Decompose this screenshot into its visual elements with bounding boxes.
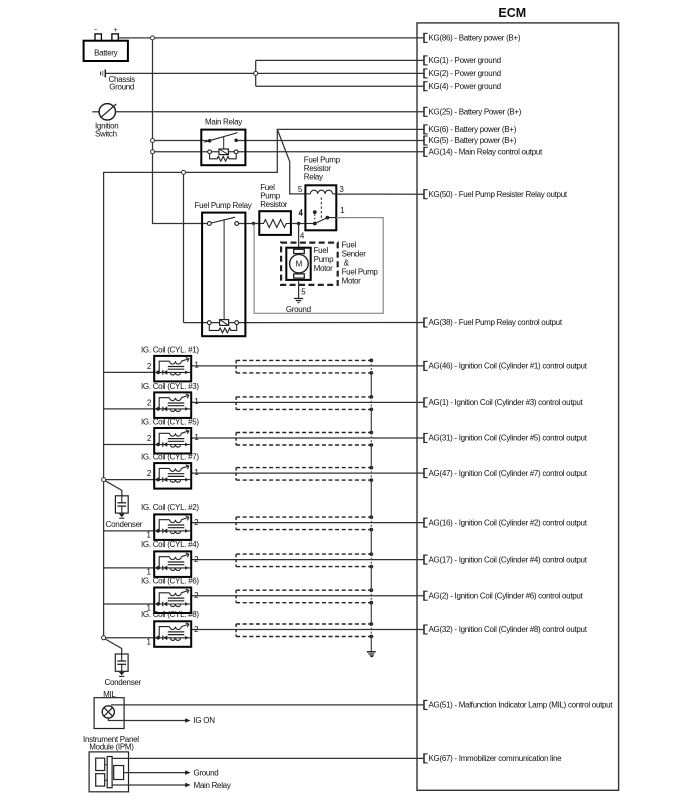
svg-text:+: + <box>114 27 118 34</box>
svg-text:IG. Coil (CYL. #6): IG. Coil (CYL. #6) <box>141 576 199 585</box>
svg-text:AG(38) - Fuel Pump Relay contr: AG(38) - Fuel Pump Relay control output <box>429 318 563 327</box>
svg-text:Switch: Switch <box>95 130 117 139</box>
svg-text:IG. Coil (CYL. #3): IG. Coil (CYL. #3) <box>141 382 199 391</box>
svg-text:IG ON: IG ON <box>194 716 216 725</box>
svg-text:IG. Coil (CYL. #7): IG. Coil (CYL. #7) <box>141 453 199 462</box>
svg-text:Pump: Pump <box>314 255 335 264</box>
svg-text:AG(51) - Malfunction Indicator: AG(51) - Malfunction Indicator Lamp (MIL… <box>429 701 614 710</box>
svg-text:Battery: Battery <box>94 48 118 57</box>
svg-text:AG(1) - Ignition Coil (Cylinde: AG(1) - Ignition Coil (Cylinder #3) cont… <box>429 398 584 407</box>
svg-text:IG. Coil (CYL. #1): IG. Coil (CYL. #1) <box>141 345 199 354</box>
svg-text:KG(67) - Immobilizer communica: KG(67) - Immobilizer communication line <box>429 754 563 763</box>
svg-text:Fuel Pump: Fuel Pump <box>342 268 379 277</box>
svg-text:Main Relay: Main Relay <box>194 781 231 790</box>
svg-text:AG(47) - Ignition Coil (Cylind: AG(47) - Ignition Coil (Cylinder #7) con… <box>429 469 588 478</box>
svg-text:IG. Coil (CYL. #4): IG. Coil (CYL. #4) <box>141 540 199 549</box>
svg-text:AG(46) - Ignition Coil (Cylind: AG(46) - Ignition Coil (Cylinder #1) con… <box>429 362 588 371</box>
svg-text:AG(14) - Main Relay control ou: AG(14) - Main Relay control output <box>429 148 543 157</box>
svg-text:AG(17) - Ignition Coil (Cylind: AG(17) - Ignition Coil (Cylinder #4) con… <box>429 555 588 564</box>
svg-text:IG. Coil (CYL. #2): IG. Coil (CYL. #2) <box>141 503 199 512</box>
svg-text:Fuel: Fuel <box>314 246 329 255</box>
svg-text:KG(4) - Power ground: KG(4) - Power ground <box>429 82 501 91</box>
svg-text:Condenser: Condenser <box>106 520 143 529</box>
svg-text:Fuel Pump Relay: Fuel Pump Relay <box>195 201 252 210</box>
svg-text:Module (IPM): Module (IPM) <box>89 743 134 752</box>
svg-text:KG(6) - Battery power (B+): KG(6) - Battery power (B+) <box>429 125 517 134</box>
svg-text:AG(32) - Ignition Coil (Cylind: AG(32) - Ignition Coil (Cylinder #8) con… <box>429 625 588 634</box>
svg-text:IG. Coil (CYL. #8): IG. Coil (CYL. #8) <box>141 610 199 619</box>
svg-text:Resistor: Resistor <box>260 200 288 209</box>
svg-text:Motor: Motor <box>314 264 334 273</box>
svg-text:Fuel: Fuel <box>342 241 357 250</box>
svg-text:Ground: Ground <box>109 83 134 92</box>
svg-text:Relay: Relay <box>304 173 323 182</box>
svg-text:Ground: Ground <box>286 305 311 314</box>
svg-text:AG(31) - Ignition Coil (Cylind: AG(31) - Ignition Coil (Cylinder #5) con… <box>429 434 588 443</box>
svg-text:AG(2) - Ignition Coil (Cylinde: AG(2) - Ignition Coil (Cylinder #6) cont… <box>429 591 584 600</box>
svg-text:KG(50) - Fuel Pump Resister Re: KG(50) - Fuel Pump Resister Relay output <box>429 190 568 199</box>
svg-text:Main Relay: Main Relay <box>205 118 242 127</box>
svg-text:IG. Coil (CYL. #5): IG. Coil (CYL. #5) <box>141 418 199 427</box>
svg-text:Ground: Ground <box>194 769 219 778</box>
svg-text:Condenser: Condenser <box>104 678 141 687</box>
svg-text:KG(5) - Battery power (B+): KG(5) - Battery power (B+) <box>429 136 517 145</box>
svg-text:ECM: ECM <box>498 6 526 20</box>
svg-text:KG(25) - Battery Power (B+): KG(25) - Battery Power (B+) <box>429 108 522 117</box>
svg-text:KG(1) - Power ground: KG(1) - Power ground <box>429 56 501 65</box>
svg-text:M: M <box>296 260 303 269</box>
svg-text:KG(2) - Power ground: KG(2) - Power ground <box>429 69 501 78</box>
svg-text:KG(86) - Battery power (B+): KG(86) - Battery power (B+) <box>429 34 521 43</box>
svg-text:Sender: Sender <box>342 250 367 259</box>
svg-text:Motor: Motor <box>342 277 362 286</box>
svg-text:AG(16) - Ignition Coil (Cylind: AG(16) - Ignition Coil (Cylinder #2) con… <box>429 518 588 527</box>
